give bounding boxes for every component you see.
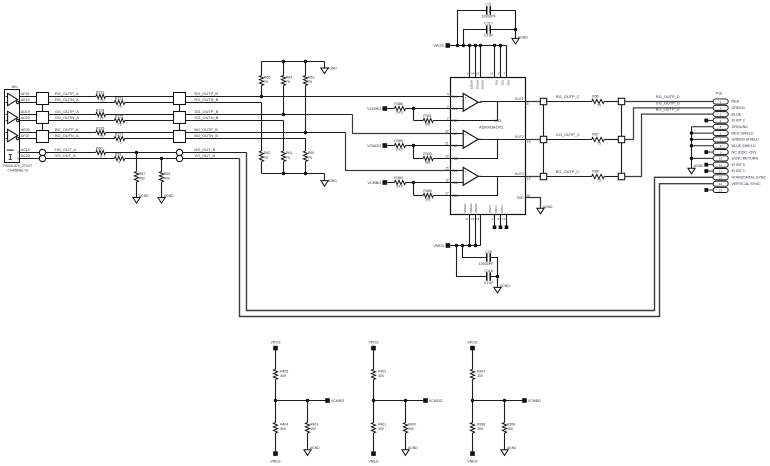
connector P16 pin 7 GREEN SHIELD [713,137,728,142]
svg-text:VPOS: VPOS [271,340,282,344]
svg-text:R61: R61 [286,151,292,155]
resistor R223 [114,96,124,108]
no-connect on P16 pin 9 [708,151,714,153]
svg-text:CHANNEL=0: CHANNEL=0 [7,168,28,172]
wire BG_OUTP_C [547,176,592,178]
capacitor C11 10000PF [458,3,516,46]
svg-text:GROUND: GROUND [732,125,749,129]
svg-text:OUT3: OUT3 [515,172,524,176]
svg-text:BLUE: BLUE [732,112,742,116]
wire OUT1 to jumper A [526,101,541,103]
svg-text:AGND: AGND [694,164,704,168]
node VCMBG divider [471,399,474,402]
svg-text:RG_OUTP_B: RG_OUTP_B [194,91,218,96]
net labels group A [55,91,79,158]
filter block column1 row2 [37,112,49,124]
port VCMRG [325,398,330,403]
svg-text:2: 2 [447,117,449,121]
wire HG_OUT after R60 [106,152,177,154]
svg-text:R60: R60 [96,146,102,150]
wire VERTICAL SYNC route [240,159,714,317]
U13 top pins VPOS1-3 PD1-3 [467,46,511,90]
svg-text:24.9: 24.9 [396,185,403,189]
bottom AGND rail [262,173,325,175]
LVDS buffer 1 in 8K1 [6,93,19,105]
8K1 pin labels [21,92,30,158]
wire RG_OUTN_B [186,102,262,104]
node VPOS rail C11 [456,44,459,47]
resistor R58 499 (V pulldown) [159,159,170,198]
svg-text:300: 300 [280,427,286,431]
svg-text:R224: R224 [96,108,104,112]
svg-text:150: 150 [408,427,414,431]
wire GG_OUTP_B [186,114,353,116]
wire GG_OUTN_A (8K1 to J-block) [20,120,37,122]
wire bottom caps to ground [497,277,499,288]
ground AGND at PAD [537,208,544,214]
node VNEG rail pin1 [468,244,471,247]
port VNEG (VCMRG bias) [273,451,278,456]
svg-text:IN2-: IN2- [452,144,458,148]
svg-text:300: 300 [378,427,384,431]
svg-text:ID BIT 2: ID BIT 2 [732,119,745,123]
resistor R397 300 [470,350,485,400]
svg-text:AGND: AGND [139,194,149,198]
U13 left pin numbers and names [445,93,459,199]
wire VCMGG node [374,400,424,402]
wire GG_OUTP_A after series R [106,114,174,116]
svg-text:VCMRG: VCMRG [331,399,345,403]
svg-text:11: 11 [465,217,468,221]
svg-text:ID BIT 1: ID BIT 1 [732,169,745,173]
svg-text:PAD: PAD [517,196,524,200]
svg-text:AC20: AC20 [21,154,30,158]
svg-text:75: 75 [308,156,312,160]
wire BG_OUTN_A to series R [49,138,115,140]
svg-text:R57: R57 [139,172,145,176]
LVDS buffer 3 in 8K1 [6,129,19,141]
svg-text:13: 13 [490,72,494,76]
resistor R399 150 [502,401,515,450]
FPGA output connector 8K1 [3,85,32,173]
svg-text:11: 11 [719,163,722,167]
wire OUT2 to jumper A [526,139,541,141]
svg-text:RG_OUTP_A: RG_OUTP_A [55,91,79,96]
port VCMBG [522,398,527,403]
connector P16 pin 14 VERTICAL SYNC [713,181,728,186]
svg-text:75: 75 [100,99,104,103]
svg-text:RED SHIELD: RED SHIELD [732,131,754,135]
wire GG_OUTP_A to series R [49,114,96,116]
wire GG_OUTN_B [186,120,284,122]
wire HG_OUT_A (8K1 to header) [20,152,40,154]
svg-text:R389: R389 [423,189,431,193]
svg-text:75: 75 [100,117,104,121]
svg-text:AF20: AF20 [21,134,30,138]
svg-text:75: 75 [286,156,290,160]
connector P16 pin 12 ID BIT 1 [713,168,728,173]
connector P16 pin 13 HORIZONTAL SYNC [713,175,728,180]
wire BG_OUTP_B [186,132,346,134]
svg-text:75: 75 [597,142,601,146]
node VPOS rail [493,44,496,47]
wire RG_OUTP_B to IC IN1+ [186,96,451,98]
svg-text:BG_OUTN_A: BG_OUTN_A [55,133,79,138]
svg-text:75: 75 [100,135,104,139]
resistor R64 75 [281,62,292,115]
svg-text:DNC3: DNC3 [500,205,504,213]
svg-text:R68: R68 [592,170,598,174]
svg-text:10: 10 [719,157,723,161]
resistor R59 (V series) [114,152,124,164]
node BG_OUTP_B termination [304,131,307,134]
svg-text:AE20: AE20 [21,128,30,132]
svg-text:VPOS: VPOS [369,340,380,344]
svg-text:OUT1: OUT1 [515,97,524,101]
wire GG_OUTP_D to P16 pin2 [625,108,713,140]
node VNEG rail pin2 [474,244,477,247]
node bottom rail R60 [304,172,307,175]
node VCMBG branch [503,399,506,402]
resistor R62 75 [259,103,270,174]
LVDS buffer 2 in 8K1 [6,111,19,123]
svg-text:R391: R391 [423,114,431,118]
svg-text:VNEG1: VNEG1 [463,203,467,213]
svg-text:AGND: AGND [327,67,337,71]
svg-text:R397: R397 [477,369,485,373]
svg-text:R58: R58 [164,172,170,176]
capacitor C118 0.1UF [457,246,498,285]
svg-text:VCMBG: VCMBG [528,399,541,403]
svg-text:GREEN SHIELD: GREEN SHIELD [732,138,760,142]
wire BG_OUTP_D to P16 pin3 [625,114,713,176]
svg-text:R405: R405 [280,369,288,373]
connector P16 pin 11 ID BIT 0 [713,162,728,167]
svg-text:R404: R404 [280,423,288,427]
op-amp U13 AD8003ACPZ body [451,78,526,215]
svg-text:GG_OUTP_A: GG_OUTP_A [55,109,79,114]
svg-text:VPOS: VPOS [433,44,444,48]
svg-text:R60: R60 [308,151,314,155]
svg-text:0: 0 [100,155,102,159]
resistor R402 300 [371,350,386,400]
filter block column2 row1 [174,93,186,105]
wire BG_OUTN_A after series R [125,138,174,140]
net labels group B [194,91,218,158]
svg-text:OUT2: OUT2 [515,135,524,139]
svg-text:BLUE SHIELD: BLUE SHIELD [732,144,756,148]
ground AGND bottom caps [494,287,501,293]
svg-text:C11: C11 [485,3,491,7]
node VNEG rail C118 [455,244,458,247]
link wires column1 blocks [42,105,44,112]
node VNEG rail C20 [461,244,464,247]
no-connect on P16 pin 12 [708,170,714,172]
top AGND rail [262,61,325,63]
svg-text:AD8003ACPZ: AD8003ACPZ [479,125,504,130]
svg-text:GREEN: GREEN [732,106,745,110]
svg-text:75: 75 [286,80,290,84]
svg-text:VERTICAL SYNC: VERTICAL SYNC [732,182,761,186]
svg-text:NC (DDC +5V): NC (DDC +5V) [732,150,756,154]
svg-text:AD20: AD20 [21,116,30,120]
svg-text:HG_OUT_B: HG_OUT_B [194,147,215,152]
resistor R63 75 [303,62,314,133]
svg-text:VPOS2: VPOS2 [476,80,480,90]
svg-text:IN1+: IN1+ [452,95,459,99]
U13 DNC pins with no-connects [488,205,508,229]
jumper B1 [618,98,624,104]
svg-text:75: 75 [118,141,122,145]
svg-text:FB3: FB3 [452,194,458,198]
top rail to ground [324,62,326,69]
svg-text:VPOS: VPOS [468,340,479,344]
svg-text:VNEG2: VNEG2 [469,203,473,213]
wire R66 to jumper B [604,101,618,103]
svg-text:P16: P16 [716,91,722,95]
node VPOS rail C117 [462,44,465,47]
node VPOS rail [499,44,502,47]
connector P16 pin 8 BLUE SHIELD [713,143,728,148]
svg-text:AC19: AC19 [21,148,30,152]
svg-text:R65: R65 [264,76,270,80]
svg-text:R63: R63 [308,76,314,80]
svg-text:RG_OUTN_B: RG_OUTN_B [194,97,218,102]
svg-text:VCMGG: VCMGG [367,144,381,148]
svg-text:15: 15 [445,167,449,171]
jumper link column B [621,102,623,177]
resistor R60b 75 [303,139,314,174]
wire GG_OUTP_A (8K1 to J-block) [20,114,37,116]
svg-text:9: 9 [498,72,500,76]
connector P16 pin 2 GREEN [713,105,728,110]
svg-text:AGND: AGND [164,194,174,198]
resistor R65 75 [259,62,270,97]
wire P16 ground pins to AGND [690,127,713,168]
svg-text:BG_OUTP_A: BG_OUTP_A [55,127,79,132]
ground AGND bottom rail [321,181,328,187]
resistor R61 75 [281,121,292,174]
svg-text:R400: R400 [408,423,416,427]
svg-text:AGND: AGND [518,36,528,40]
svg-text:GG_OUTN_A: GG_OUTN_A [55,115,79,120]
svg-text:20: 20 [445,155,449,159]
svg-text:R402: R402 [378,369,386,373]
ground AGND (VCMRG bias) [304,450,311,456]
wire GG_OUTP_B step to IN2+ [353,115,451,134]
op-amp U13 amp3 [451,167,526,195]
resistor R225 [114,114,124,126]
svg-text:PD1: PD1 [495,80,499,86]
node C11/C117 ground join [514,28,517,31]
svg-text:+: + [464,96,466,100]
svg-text:19: 19 [527,140,531,144]
ground AGND (VCMBG bias) [501,450,508,456]
svg-text:GG_OUTN_B: GG_OUTN_B [194,115,218,120]
resistor R386 24.9 [387,102,413,114]
svg-text:R67: R67 [592,133,598,137]
resistor R384 24.9 [387,176,413,188]
node rail R63 [304,60,307,63]
svg-text:13: 13 [719,176,723,180]
svg-text:AE19: AE19 [21,98,30,102]
port VNEG (bottom) [446,243,451,248]
H/V sync symbols in 8K1 [7,150,20,161]
node VPOS rail [474,44,477,47]
svg-text:R227: R227 [115,132,123,136]
svg-text:AGND: AGND [543,205,553,209]
connector P16 pin 9 NC (DDC +5V) [713,150,728,155]
svg-text:R222: R222 [96,90,104,94]
no-connect on P16 pin 4 [708,119,714,121]
svg-text:VCMRG: VCMRG [367,107,381,111]
svg-text:RED: RED [732,100,740,104]
wire BG_OUTN_B [186,138,306,140]
wire VCMRG node [276,400,326,402]
svg-text:R403: R403 [310,423,318,427]
jumper A1 [540,98,546,104]
resistor R222 [96,90,106,102]
no-connect on P16 pin 15 [708,189,714,191]
svg-text:150: 150 [507,427,513,431]
svg-text:24.9: 24.9 [396,111,403,115]
wire BG_OUTP_A (8K1 to J-block) [20,132,37,134]
filter block column1 row3 [37,131,49,143]
svg-text:GG_OUTP_C: GG_OUTP_C [556,132,580,137]
node VPOS rail [468,44,471,47]
svg-text:10000PF: 10000PF [481,15,496,19]
svg-text:C20: C20 [485,250,492,254]
wire RG_OUTN_A (8K1 to J-block) [20,102,37,104]
svg-text:DNC2: DNC2 [494,205,498,213]
wire RG_OUTP_A (8K1 to J-block) [20,96,37,98]
jumper B3 [618,173,624,179]
svg-text:499: 499 [139,177,145,181]
svg-text:75: 75 [597,104,601,108]
svg-text:RG_OUTP_D: RG_OUTP_D [656,94,680,99]
node VCMRG divider [274,399,277,402]
svg-text:HG_OUT_A: HG_OUT_A [55,147,76,152]
connector P16 pin 3 BLUE [713,112,728,117]
port VNEG (VCMBG bias) [470,451,475,456]
ground AGND (VCMGG bias) [402,450,409,456]
svg-text:499: 499 [164,177,170,181]
resistor R57 499 (H pulldown) [134,153,145,198]
svg-text:VNEG: VNEG [467,459,477,463]
jumper A3 [540,173,546,179]
wire VG_OUT_B [183,158,240,160]
node V pulldown junction [160,157,163,160]
connector P16 pin 15 [713,187,728,192]
wire VG_OUT_A to R59 [46,158,115,160]
svg-text:21: 21 [445,142,449,146]
capacitor C20 10000PF [463,246,498,277]
resistor R224 [96,108,106,120]
port VCMGG [423,398,428,403]
capacitor C117 0.1UF [464,22,516,46]
svg-text:VG_OUT_B: VG_OUT_B [194,153,215,158]
svg-text:8: 8 [498,217,500,221]
svg-text:R386: R386 [394,102,402,106]
resistor R403 150 [305,401,318,450]
svg-text:VNEG: VNEG [270,459,280,463]
jumper A2 [540,136,546,142]
svg-text:R385: R385 [394,139,402,143]
svg-text:17: 17 [445,192,449,196]
wire VCMBG to IC [414,182,451,184]
node C20/C118 ground join [496,275,499,278]
svg-text:22: 22 [445,130,449,134]
resistor R67 75 [592,133,605,146]
wire RG_OUTN_A to series R [49,102,115,104]
resistor R389 301 [414,183,451,202]
svg-text:DNC1: DNC1 [488,205,492,213]
port VCMBG [383,180,388,185]
resistor R405 300 [273,350,288,400]
svg-text:VNEG: VNEG [433,244,444,248]
svg-text:VCMBG: VCMBG [367,181,381,185]
ground AGND below R58 [158,198,165,204]
VPOS rail to U13 [450,45,506,47]
svg-text:R223: R223 [115,96,123,100]
svg-text:75: 75 [264,80,268,84]
wire VCMRG to IC [414,108,451,110]
connector P16 pin 10 SYNC RETURN [713,156,728,161]
svg-text:GG_OUTP_D: GG_OUTP_D [656,100,680,105]
svg-text:VNEG3: VNEG3 [474,203,478,213]
svg-text:0.1UF: 0.1UF [484,33,495,37]
svg-text:+: + [464,170,466,174]
header circles column1 (H/V) [39,149,45,155]
node GG_OUTP_B termination [282,113,285,116]
svg-text:BG_OUTP_D: BG_OUTP_D [656,107,680,112]
op-amp U13 amp1 [451,93,526,120]
svg-text:C117: C117 [484,22,492,26]
svg-text:75: 75 [308,80,312,84]
svg-text:R398: R398 [477,423,485,427]
filter block column1 row1 [37,93,49,105]
connector P16 pin 6 RED SHIELD [713,131,728,136]
svg-text:IN2+: IN2+ [452,132,459,136]
jumper link column A [543,102,545,177]
no-connect on P16 pin 11 [708,164,714,166]
node VCMGG branch [404,399,407,402]
node VCMRG branch [306,399,309,402]
node VCMGG junction [412,144,415,147]
wire RG_OUTP_D to P16 pin1 [625,101,713,103]
svg-text:BG_OUTP_C: BG_OUTP_C [556,169,580,174]
svg-text:10000PF: 10000PF [479,262,494,266]
svg-text:8K1: 8K1 [12,85,18,89]
svg-text:R66: R66 [592,95,598,99]
wire HG_OUT_A to R60 [46,152,96,154]
svg-text:300: 300 [477,374,483,378]
port VCMGG [383,143,388,148]
wire VG_OUT_A (8K1 to header) [20,158,40,160]
svg-text:IN3+: IN3+ [452,169,459,173]
svg-text:0: 0 [118,161,120,165]
resistor R60 (H series) [96,146,106,158]
resistor R390 301 [414,146,451,165]
wire VG_OUT after R59 [125,158,177,160]
svg-text:SYNC RETURN: SYNC RETURN [732,157,759,161]
svg-text:VPOS3: VPOS3 [481,80,485,90]
svg-text:23: 23 [471,217,475,221]
resistor R401 300 [371,401,386,452]
resistor R398 300 [470,401,485,452]
connector P16 pin 4 ID BIT 2 [713,118,728,123]
wire BG_OUTP_A after series R [106,132,174,134]
